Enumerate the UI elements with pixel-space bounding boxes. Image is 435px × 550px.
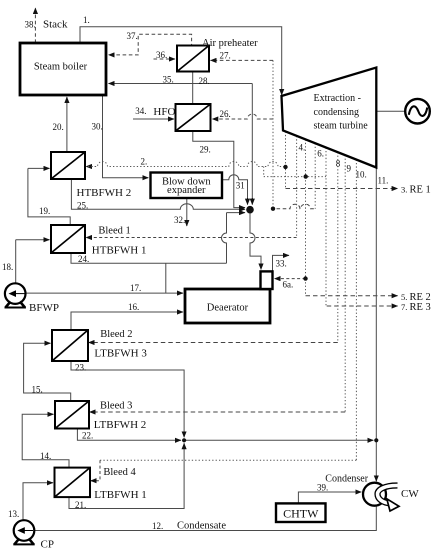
svg-text:9: 9 (347, 164, 352, 174)
svg-text:14.: 14. (40, 451, 51, 461)
svg-text:17.: 17. (130, 283, 141, 293)
svg-text:11.: 11. (378, 176, 389, 186)
svg-text:Bleed 3: Bleed 3 (100, 401, 132, 412)
svg-text:Bleed 2: Bleed 2 (100, 329, 132, 340)
svg-text:Stack: Stack (43, 19, 68, 31)
svg-text:32.: 32. (174, 215, 185, 225)
svg-text:26.: 26. (220, 109, 231, 119)
svg-text:expander: expander (167, 185, 206, 196)
svg-text:22.: 22. (82, 431, 93, 441)
svg-text:LTBFWH 3: LTBFWH 3 (94, 348, 147, 360)
svg-text:CHTW: CHTW (283, 507, 319, 521)
svg-text:steam turbine: steam turbine (314, 121, 369, 132)
svg-text:23.: 23. (75, 363, 86, 373)
svg-text:LTBFWH 2: LTBFWH 2 (94, 419, 146, 431)
svg-text:31: 31 (236, 181, 245, 191)
svg-text:7. RE 3: 7. RE 3 (401, 302, 431, 313)
svg-text:37.: 37. (127, 31, 138, 41)
svg-text:HTBFWH 2: HTBFWH 2 (77, 187, 132, 199)
svg-text:Air preheater: Air preheater (202, 38, 258, 49)
svg-text:27.: 27. (220, 51, 231, 61)
svg-text:HTBFWH 1: HTBFWH 1 (92, 245, 147, 257)
svg-text:16.: 16. (128, 302, 139, 312)
svg-text:Condensate: Condensate (177, 521, 226, 532)
svg-text:35.: 35. (163, 75, 174, 85)
svg-text:15.: 15. (32, 385, 43, 395)
svg-text:HFO: HFO (153, 106, 175, 118)
svg-text:1.: 1. (83, 15, 90, 25)
svg-text:LTBFWH 1: LTBFWH 1 (94, 489, 146, 501)
svg-text:Deaerator: Deaerator (207, 303, 249, 314)
svg-text:Bleed 1: Bleed 1 (98, 226, 130, 237)
svg-text:21.: 21. (75, 500, 86, 510)
svg-text:2.: 2. (141, 157, 148, 167)
svg-text:19.: 19. (39, 206, 50, 216)
svg-text:6.: 6. (317, 149, 324, 159)
svg-text:Extraction -: Extraction - (314, 93, 361, 104)
svg-text:13.: 13. (8, 509, 19, 519)
svg-text:Bleed 4: Bleed 4 (103, 467, 136, 478)
svg-text:6a.: 6a. (283, 280, 294, 290)
svg-text:34.: 34. (135, 106, 146, 116)
svg-text:24.: 24. (78, 254, 89, 264)
svg-text:28.: 28. (199, 76, 210, 86)
svg-text:3. RE 1: 3. RE 1 (401, 185, 431, 196)
svg-text:30.: 30. (92, 122, 103, 132)
svg-text:8: 8 (336, 159, 341, 169)
svg-text:10.: 10. (356, 170, 367, 180)
svg-text:25.: 25. (77, 201, 88, 211)
svg-text:12.: 12. (152, 521, 163, 531)
svg-text:18.: 18. (2, 262, 13, 272)
svg-text:CP: CP (41, 539, 54, 550)
svg-text:condensing: condensing (314, 107, 360, 118)
svg-text:33.: 33. (276, 259, 287, 269)
svg-text:4.: 4. (299, 143, 306, 153)
svg-text:Steam boiler: Steam boiler (34, 62, 88, 73)
svg-text:CW: CW (401, 488, 419, 500)
svg-text:38.: 38. (25, 20, 36, 30)
svg-text:36.: 36. (156, 50, 167, 60)
svg-text:BFWP: BFWP (29, 302, 59, 314)
svg-text:20.: 20. (53, 122, 64, 132)
svg-text:29.: 29. (200, 145, 211, 155)
svg-text:Condenser: Condenser (325, 474, 368, 485)
